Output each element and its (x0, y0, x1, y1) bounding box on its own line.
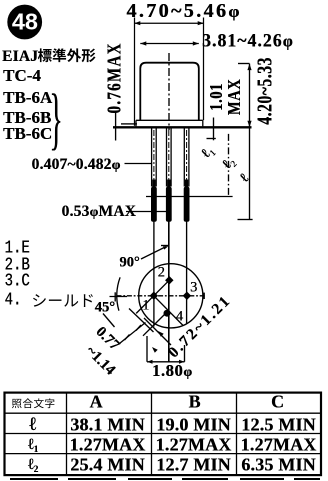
pin number 4 (176, 309, 183, 326)
table row label l2 (28, 456, 38, 474)
45 deg line through pin 4 (143, 313, 166, 336)
label l (237, 171, 253, 187)
label TB-6B (3, 108, 51, 128)
0.72~1.21 dim extension diagonal (144, 318, 171, 345)
0.77~1.14 extension segment b (129, 309, 154, 333)
table header C (271, 392, 284, 413)
table value 19.0 MIN r0c1 (156, 414, 231, 435)
transistor can body outline (140, 63, 199, 121)
pin list 2.B (5, 255, 30, 276)
tick on dim line (125, 335, 130, 341)
45 deg line through pins 2-1 (136, 282, 167, 313)
lead 3 transition blob (185, 180, 188, 188)
angle 45 (95, 299, 115, 316)
lead 3 upper outline (183, 128, 185, 186)
dim text 0.53MAX (62, 203, 137, 221)
table header B (188, 392, 200, 413)
table header kanji (12, 398, 54, 408)
dim text 0.407~0.482 (32, 156, 121, 174)
table value 1.27MAX r1c0 (70, 435, 146, 456)
90 deg leader (141, 247, 166, 259)
pin list 1.E (5, 238, 30, 259)
lead 3 thin line to bottom view (186, 222, 188, 324)
dimension 4.70~5.46 dia line (134, 18, 203, 126)
lead 3 thick section (184, 187, 190, 222)
pin 4 mark (164, 310, 171, 317)
leader for 0.53 dia MAX (126, 211, 166, 213)
lead 1 thick section (151, 187, 157, 222)
lead 1 upper outline (151, 128, 153, 186)
badge number 48 (12, 9, 38, 36)
lead 2 transition blob (167, 180, 170, 188)
label TC-4 (3, 66, 41, 86)
pin list 4. (5, 290, 22, 311)
dim text 0.72~1.21 (164, 291, 234, 361)
table row label l1 (28, 436, 38, 454)
pin number 2 (158, 264, 165, 281)
table horizontals (5, 412, 322, 414)
label l1 (198, 143, 217, 162)
label EIAJ (2, 48, 38, 66)
l2 bottom extension (146, 196, 233, 198)
angle 90 (119, 255, 139, 272)
table header A (90, 392, 103, 413)
centerline left segment (110, 296, 128, 298)
dimension l / 4.20~5.33 main line (249, 64, 251, 220)
leader for 0.407~0.482 dia (125, 163, 153, 165)
pin number 3 (190, 279, 197, 296)
dimension l2 line (228, 134, 230, 197)
tick on dim line (136, 325, 141, 331)
pin list 3.C (5, 271, 30, 292)
dim text 1.80 (152, 361, 193, 381)
pin 3 mark (183, 292, 191, 300)
label TB-6A (3, 88, 52, 108)
dim text 1.01 MAX (208, 79, 245, 115)
table value 1.27MAX r1c2 (241, 435, 317, 456)
bottom view circle (139, 264, 203, 328)
seating plane line (113, 126, 252, 128)
lead 1 transition blob (152, 180, 155, 188)
centerline right tick (203, 293, 205, 299)
table outer border (5, 393, 322, 476)
brace for TB group (49, 78, 62, 158)
table value 6.35 MIN r2c2 (241, 455, 316, 476)
label EIAJ standard outline kanji (38, 48, 96, 62)
table value 38.1 MIN r0c0 (70, 414, 145, 435)
table value 12.7 MIN r2c1 (156, 455, 231, 476)
dim text 0.77 (92, 323, 123, 354)
pin list shield kana (33, 294, 93, 307)
flange top line (136, 119, 203, 121)
can vertical centerline (168, 53, 170, 130)
lead 2 thick section (166, 187, 172, 222)
table value 25.4 MIN r2c0 (70, 455, 145, 476)
bottom view horizontal centerline (117, 295, 207, 297)
table value 12.5 MIN r0c2 (241, 414, 316, 435)
dim text 4.70~5.46 (126, 0, 241, 22)
0.77~1.14 dimension line (120, 323, 146, 344)
lead 2 upper outline (166, 128, 168, 186)
flange side right (202, 120, 204, 126)
pin number 1 (142, 297, 149, 314)
dim text 3.81~4.26 (202, 29, 294, 51)
lead 2 centerline (168, 130, 170, 186)
diagonal dimension line pin1-pin4 (154, 296, 171, 345)
badge circled 48 (7, 5, 42, 40)
angle dimension arc (117, 277, 120, 310)
flange side left (135, 120, 137, 126)
table value 1.27MAX r1c1 (156, 435, 232, 456)
0.77~1.14 extension segment a (103, 314, 115, 328)
flange top extension left (121, 123, 137, 125)
dimension l1 line (213, 118, 215, 141)
dimension 3.81~4.26 dia line (140, 43, 199, 45)
label TB-6C (3, 124, 52, 144)
lead 1 centerline (153, 130, 155, 186)
arc tick (114, 292, 116, 301)
table row label l (29, 414, 36, 436)
lead 1 thin line to bottom view (153, 222, 155, 327)
dim text 4.20~5.33 (254, 57, 278, 125)
dim text ~1.14 (81, 343, 117, 379)
dim text 0.76MAX (105, 43, 127, 114)
lead 3 centerline (186, 130, 188, 186)
0.76MAX dimension line (115, 113, 117, 141)
pin 1 mark (150, 292, 158, 300)
1.80 dia dimension (147, 361, 185, 363)
pin 2 mark (165, 276, 173, 284)
label l2 (219, 155, 238, 174)
lead 2 thin line to bottom view (168, 222, 170, 362)
page bottom dashed edge (10, 478, 320, 480)
table verticals (5, 393, 322, 476)
